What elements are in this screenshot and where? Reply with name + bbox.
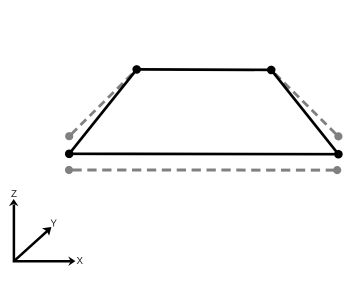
svg-text:X: X <box>77 256 84 267</box>
svg-text:Y: Y <box>50 218 57 229</box>
svg-text:Z: Z <box>11 189 17 200</box>
